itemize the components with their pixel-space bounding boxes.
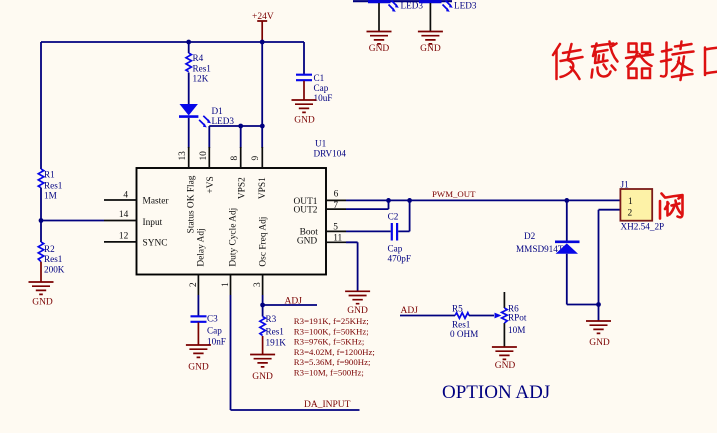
svg-text:LED3: LED3 bbox=[212, 116, 235, 126]
svg-text:Osc Freq Adj: Osc Freq Adj bbox=[258, 217, 268, 267]
svg-text:OPTION ADJ: OPTION ADJ bbox=[442, 382, 550, 403]
svg-text:Duty Cycle Adj: Duty Cycle Adj bbox=[228, 208, 238, 267]
svg-text:ADJ: ADJ bbox=[285, 297, 303, 307]
wire ADJ stub bbox=[263, 304, 317, 306]
svg-text:9: 9 bbox=[251, 156, 261, 161]
svg-text:Res1: Res1 bbox=[452, 320, 471, 330]
svg-text:10M: 10M bbox=[508, 325, 525, 335]
svg-text:R3=10M, f=500Hz;: R3=10M, f=500Hz; bbox=[294, 367, 364, 377]
svg-text:LED3: LED3 bbox=[454, 1, 477, 11]
pin 8 stub bbox=[240, 147, 242, 168]
svg-text:6: 6 bbox=[334, 190, 339, 200]
svg-text:Cap: Cap bbox=[207, 326, 222, 336]
wire D2 to corner bbox=[567, 254, 599, 305]
connector J1 bbox=[620, 189, 652, 221]
svg-text:VPS1: VPS1 bbox=[258, 177, 268, 199]
svg-text:GND: GND bbox=[369, 44, 390, 54]
wire Boot to C2 bbox=[346, 230, 391, 232]
svg-text:Delay Adj: Delay Adj bbox=[196, 228, 206, 266]
wire OUT1 PWM_OUT bbox=[346, 199, 620, 201]
LED top A cathode bar bbox=[353, 0, 452, 2]
svg-text:R3=976K, f=5KHz;: R3=976K, f=5KHz; bbox=[294, 337, 365, 347]
svg-text:10: 10 bbox=[199, 151, 209, 161]
ground under J1 net bbox=[586, 321, 611, 333]
svg-text:XH2.54_2P: XH2.54_2P bbox=[621, 222, 665, 232]
wire +VS net vertical bbox=[261, 42, 263, 148]
svg-text:R5: R5 bbox=[452, 304, 463, 314]
svg-text:10uF: 10uF bbox=[314, 93, 333, 103]
LED top A arrows bbox=[389, 1, 397, 11]
svg-text:GND: GND bbox=[420, 44, 441, 54]
svg-text:Status OK Flag: Status OK Flag bbox=[186, 175, 196, 233]
node pin9 junction bbox=[260, 124, 265, 129]
svg-text:D2: D2 bbox=[524, 231, 536, 241]
wire D1 to pin 13 bbox=[188, 118, 190, 148]
svg-text:13: 13 bbox=[178, 151, 188, 161]
wire top rail bbox=[41, 41, 304, 43]
pin 11 stub bbox=[326, 241, 346, 243]
LED top A lead bbox=[378, 3, 380, 32]
ground under R2 bbox=[29, 282, 54, 294]
ground under LED B bbox=[418, 32, 443, 44]
wire pin11 to ground bbox=[346, 242, 358, 291]
svg-text:4: 4 bbox=[123, 191, 128, 201]
svg-text:U1: U1 bbox=[315, 139, 327, 149]
svg-text:8: 8 bbox=[230, 156, 240, 161]
svg-text:12: 12 bbox=[119, 232, 129, 242]
svg-text:VPS2: VPS2 bbox=[238, 177, 248, 199]
node R4 on rail bbox=[186, 40, 191, 45]
capacitor C3 bbox=[191, 316, 207, 322]
LED top B cathode bar bbox=[419, 0, 442, 3]
pin 7 stub bbox=[326, 208, 346, 210]
svg-text:R3: R3 bbox=[266, 314, 277, 324]
svg-text:5: 5 bbox=[333, 223, 338, 233]
wire left vertical to R1 bbox=[40, 42, 42, 169]
ground under R3 bbox=[250, 355, 275, 367]
capacitor C2 bbox=[392, 223, 397, 241]
svg-text:ADJ: ADJ bbox=[401, 306, 419, 316]
wire rail to R4 bbox=[188, 42, 190, 53]
node ADJ bbox=[260, 303, 265, 308]
wire R1 to R2 bbox=[40, 188, 42, 242]
node pin8 junction bbox=[238, 124, 243, 129]
diode D2 bbox=[555, 241, 580, 244]
wire J1 pin2 down bbox=[599, 210, 621, 321]
svg-text:GND: GND bbox=[32, 298, 53, 308]
svg-text:14: 14 bbox=[119, 210, 129, 220]
pin 12 stub bbox=[104, 241, 137, 243]
svg-text:Cap: Cap bbox=[388, 244, 403, 254]
resistor R1 bbox=[38, 169, 43, 188]
wire R5 to R6 wiper bbox=[469, 315, 494, 317]
wire R3 to ground bbox=[262, 336, 264, 355]
pin 3 stub bbox=[262, 275, 264, 296]
svg-text:OUT2: OUT2 bbox=[294, 206, 318, 216]
svg-text:470pF: 470pF bbox=[388, 253, 412, 263]
svg-text:PWM_OUT: PWM_OUT bbox=[432, 189, 476, 199]
svg-text:+VS: +VS bbox=[206, 176, 216, 193]
svg-text:Res1: Res1 bbox=[44, 254, 63, 264]
resistor R2 bbox=[38, 242, 43, 262]
ground under C1 bbox=[292, 100, 317, 112]
wire OUT2 join bbox=[346, 200, 389, 209]
svg-text:R3=4.02M, f=1200Hz;: R3=4.02M, f=1200Hz; bbox=[294, 347, 375, 357]
pin 5 stub bbox=[326, 230, 346, 232]
svg-text:C3: C3 bbox=[207, 314, 218, 324]
ground pin11 bbox=[345, 291, 370, 303]
ground under C3 bbox=[186, 345, 211, 357]
wire C2 up to PWM bbox=[398, 200, 409, 231]
node +24V on rail bbox=[260, 40, 265, 45]
svg-text:GND: GND bbox=[294, 116, 315, 126]
node C2 branch bbox=[407, 198, 412, 203]
ground under LED A bbox=[367, 32, 392, 44]
wire rail corner to C1 bbox=[303, 42, 305, 74]
svg-text:1: 1 bbox=[628, 197, 633, 207]
svg-text:Input: Input bbox=[143, 218, 163, 228]
svg-text:D1: D1 bbox=[212, 106, 224, 116]
wire Input to R1/R2 node bbox=[41, 220, 104, 222]
svg-text:R2: R2 bbox=[44, 244, 55, 254]
wire C3 to ground bbox=[197, 322, 199, 345]
svg-text:GND: GND bbox=[297, 237, 318, 247]
IC U1 DRV104 body bbox=[137, 168, 327, 275]
svg-text:DA_INPUT: DA_INPUT bbox=[304, 400, 351, 410]
svg-text:Res1: Res1 bbox=[44, 181, 63, 191]
chinese text sensor interface bbox=[553, 42, 717, 81]
pin 1 stub bbox=[230, 275, 232, 296]
potentiometer R6 bbox=[503, 292, 505, 347]
pin 4 stub bbox=[104, 199, 137, 201]
svg-text:C2: C2 bbox=[388, 212, 399, 222]
node J1 pin2 net bbox=[596, 302, 601, 307]
resistor R3 bbox=[260, 317, 265, 336]
wire pin3 down bbox=[262, 295, 264, 317]
wire C1 to ground bbox=[303, 81, 305, 100]
wire R2 to ground bbox=[40, 262, 42, 282]
svg-text:0 OHM: 0 OHM bbox=[450, 329, 478, 339]
node OUT2 join bbox=[386, 198, 391, 203]
svg-text:GND: GND bbox=[347, 306, 368, 316]
wire ADJ option bbox=[400, 315, 455, 317]
svg-text:Res1: Res1 bbox=[266, 327, 285, 337]
pin 14 stub bbox=[104, 220, 137, 222]
svg-text:SYNC: SYNC bbox=[143, 239, 168, 249]
LED top B lead bbox=[429, 3, 431, 32]
pin 2 stub bbox=[197, 275, 199, 296]
wire pin1 DA_INPUT bbox=[231, 295, 360, 410]
resistor R4 bbox=[186, 53, 191, 72]
svg-text:R3=100K, f=50KHz;: R3=100K, f=50KHz; bbox=[294, 326, 369, 336]
svg-text:Res1: Res1 bbox=[193, 64, 212, 74]
wire R4 to D1 bbox=[188, 73, 190, 105]
svg-text:200K: 200K bbox=[44, 265, 65, 275]
svg-text:1: 1 bbox=[221, 282, 231, 287]
wire pin2 to C3 bbox=[197, 295, 199, 316]
pin 6 stub bbox=[326, 199, 346, 201]
capacitor C1 bbox=[296, 75, 312, 81]
svg-text:7: 7 bbox=[333, 201, 338, 211]
svg-text:GND: GND bbox=[188, 363, 209, 373]
svg-text:2: 2 bbox=[189, 282, 199, 287]
svg-text:Cap: Cap bbox=[314, 83, 329, 93]
pin 9 stub bbox=[261, 147, 263, 168]
svg-text:2: 2 bbox=[628, 209, 633, 219]
chinese text valve label bbox=[660, 194, 683, 219]
pin 13 stub bbox=[188, 147, 190, 168]
svg-text:GND: GND bbox=[252, 372, 273, 382]
svg-text:12K: 12K bbox=[193, 74, 209, 84]
svg-text:J1: J1 bbox=[621, 180, 630, 190]
svg-text:1M: 1M bbox=[44, 191, 57, 201]
svg-text:R4: R4 bbox=[193, 53, 204, 63]
node D2 branch bbox=[564, 198, 569, 203]
svg-text:RPot: RPot bbox=[508, 313, 527, 323]
wire to D2 bbox=[566, 200, 568, 241]
ground under R6 bbox=[492, 347, 517, 359]
svg-text:DRV104: DRV104 bbox=[314, 149, 347, 159]
svg-text:C1: C1 bbox=[314, 73, 325, 83]
resistor R5 bbox=[455, 313, 469, 319]
diode D1 LED bbox=[180, 104, 198, 116]
wire +VS horizontal to pins 10,8 bbox=[209, 126, 262, 148]
svg-text:R3=5.36M, f=900Hz;: R3=5.36M, f=900Hz; bbox=[294, 357, 371, 367]
node junction R1/R2/Input bbox=[39, 218, 44, 223]
svg-text:191K: 191K bbox=[266, 338, 287, 348]
svg-text:11: 11 bbox=[333, 234, 342, 244]
svg-text:Master: Master bbox=[143, 197, 170, 207]
svg-text:3: 3 bbox=[253, 282, 263, 287]
LED top B arrows bbox=[443, 1, 451, 11]
svg-text:R3=191K, f=25KHz;: R3=191K, f=25KHz; bbox=[294, 316, 369, 326]
svg-text:GND: GND bbox=[589, 338, 610, 348]
pin 10 stub bbox=[208, 147, 210, 168]
svg-text:GND: GND bbox=[495, 361, 516, 371]
svg-text:R1: R1 bbox=[44, 170, 55, 180]
potentiometer R6 wiper arrow bbox=[495, 313, 502, 319]
